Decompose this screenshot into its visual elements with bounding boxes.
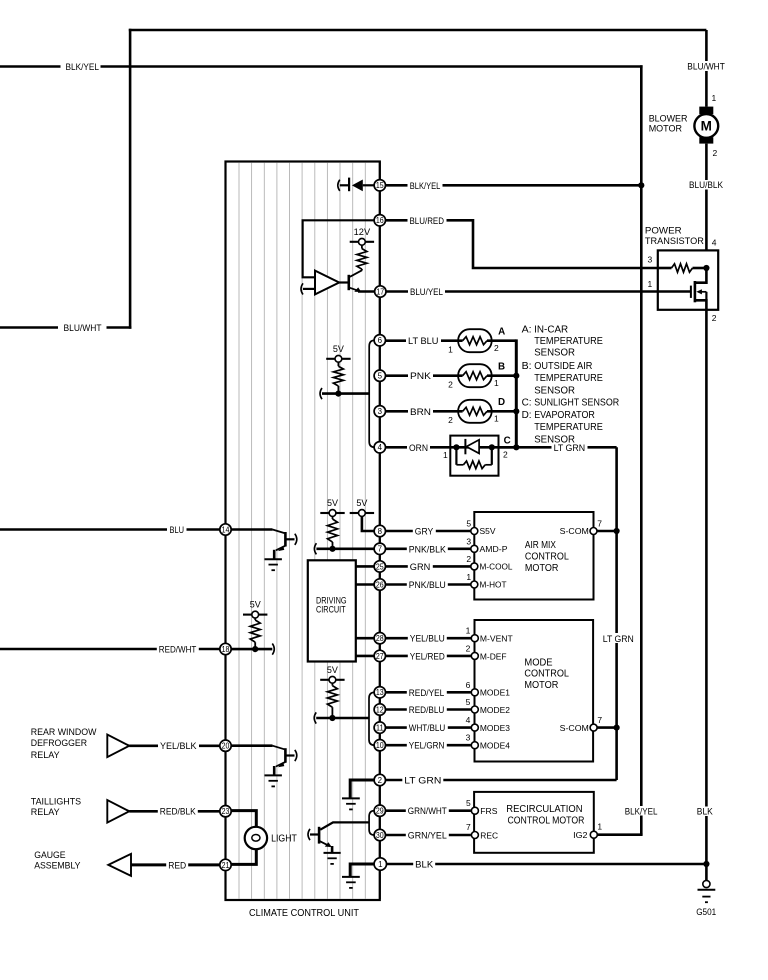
svg-text:C:: C: [522,397,532,408]
svg-text:2: 2 [466,554,471,564]
wire IG2 to BLK/YEL bus [597,833,642,836]
svg-text:CONTROL MOTOR: CONTROL MOTOR [508,816,585,827]
svg-text:LIGHT: LIGHT [271,834,297,845]
svg-text:M-COOL: M-COOL [480,562,513,572]
svg-text:1: 1 [378,860,383,869]
wire power transistor pin2 to ground BLK [705,310,708,881]
svg-text:5V: 5V [356,498,368,508]
power transistor U2 box [658,250,718,309]
svg-text:ORN: ORN [409,443,428,453]
junction sensor bus D [513,408,519,414]
svg-text:2: 2 [466,643,471,653]
svg-text:REC: REC [480,830,498,840]
terminal M-COOL (2) [471,563,478,570]
wire BLU/WHT from left edge to top rail [0,326,58,329]
svg-text:RELAY: RELAY [31,749,61,760]
op-amp U1 [315,271,339,295]
junction sensor bus B [513,373,519,379]
svg-text:AIR MIX: AIR MIX [525,540,556,551]
svg-text:BLK/YEL: BLK/YEL [66,62,100,72]
svg-text:CONTROL: CONTROL [524,669,569,680]
terminal MODE2 (5) [471,706,478,713]
svg-text:M-VENT: M-VENT [480,634,514,644]
thermistor A (in-car temperature sensor) [463,337,487,345]
transistor Q6 at pin 20 [231,744,272,747]
svg-text:17: 17 [376,287,384,296]
pin 15 wire BLK/YEL [385,184,641,187]
terminal M-HOT (1) [471,581,478,588]
svg-text:3: 3 [466,733,471,743]
pin 1 internal ground [350,864,374,877]
5V supply left of pin 7 [320,512,329,514]
junction S-COM air mix [614,528,620,534]
terminal MODE1 (6) [471,689,478,696]
photodiode in sunlight sensor [464,439,466,454]
svg-text:A:: A: [522,324,532,335]
5V supply for pin 8 [350,512,359,514]
label BLU/WHT at blower [685,61,726,71]
pin 30 [374,829,385,840]
svg-text:OUTSIDE AIR: OUTSIDE AIR [534,361,592,372]
mode control motor box [475,620,594,762]
5V supply for sensors [326,358,335,360]
svg-text:18: 18 [222,645,230,654]
svg-text:26: 26 [376,580,384,589]
sunlight sensor C box [450,436,498,476]
pin 6 wire LT BLU to in-car temp sensor [386,339,463,342]
svg-text:FRS: FRS [480,806,497,816]
wire blower to power transistor BLU/BLK [705,144,708,251]
svg-text:28: 28 [376,634,384,643]
svg-text:16: 16 [376,216,384,225]
svg-text:5: 5 [466,519,471,529]
terminal M-VENT (1) [471,635,478,642]
wire top rail to blower motor [129,29,707,32]
pin 7 wire PNK/BLK to AMD-P [386,547,471,550]
svg-text:11: 11 [376,724,384,733]
pin 25 wire GRN to M-COOL [356,565,471,568]
svg-text:BRN: BRN [410,407,431,417]
svg-text:TEMPERATURE: TEMPERATURE [534,336,603,347]
pin 26 [374,579,385,590]
wire pin16 to op-amp input [303,220,375,277]
pin 2 [374,774,385,785]
junction drain node [703,265,709,271]
svg-text:D:: D: [522,410,532,421]
svg-text:23: 23 [222,807,230,816]
svg-text:IG2: IG2 [573,830,588,840]
resistor R5 pin18 pull-up [254,618,256,620]
pin 7 [374,543,385,554]
svg-text:5V: 5V [333,344,345,354]
svg-text:YEL/GRN: YEL/GRN [409,741,445,751]
svg-text:4: 4 [378,443,383,452]
pin 14 [220,524,231,535]
svg-text:CONTROL: CONTROL [525,552,569,563]
5V supply for mode pins [320,679,329,681]
svg-text:TAILLIGHTS: TAILLIGHTS [31,795,81,806]
connector arrow from taillights relay [107,800,129,823]
pin 28 wire YEL/BLU to M-VENT [386,637,472,640]
svg-text:12: 12 [376,705,384,714]
svg-text:1: 1 [648,279,653,289]
svg-text:1: 1 [494,413,499,423]
pin 4 [374,442,385,453]
svg-text:5: 5 [378,372,383,381]
wire blower motor drop [705,30,708,107]
terminal FRS (5) [471,807,478,814]
pin 20 wire YEL/BLK [129,744,219,747]
svg-text:IN-CAR: IN-CAR [534,324,568,335]
pin 11 wire WHT/BLU to MODE3 [386,726,471,729]
svg-text:3: 3 [648,254,653,264]
svg-text:RECIRCULATION: RECIRCULATION [506,804,582,815]
svg-text:GRY: GRY [415,527,434,537]
svg-text:BLU/BLK: BLU/BLK [689,180,724,190]
svg-text:30: 30 [376,831,384,840]
terminal S5V (5) [471,528,478,535]
climate control unit box (hatched) [226,162,380,901]
label BLK right [695,807,715,817]
resistor R2 sensor pull-up [337,362,339,366]
junction C right [489,444,495,450]
svg-text:3: 3 [378,407,383,416]
svg-text:A: A [498,327,505,338]
thermistor B (outside air temperature sensor) [463,372,487,380]
svg-text:MOTOR: MOTOR [649,124,682,135]
svg-text:CLIMATE CONTROL UNIT: CLIMATE CONTROL UNIT [249,908,359,919]
svg-text:MOTOR: MOTOR [525,563,559,574]
pin 29 [374,805,385,816]
svg-text:YEL/RED: YEL/RED [410,651,445,661]
svg-text:25: 25 [376,562,384,571]
pin 16 wire BLU/RED to power transistor pin 3 [386,220,658,268]
pin 4 wire ORN to sunlight sensor [386,446,517,449]
svg-text:21: 21 [222,861,230,870]
panel light bulb [231,811,256,827]
junction BLK/YEL & pin15 wire [638,182,644,188]
svg-text:M-DEF: M-DEF [480,651,507,661]
pin 30 wire GRN/YEL to REC [386,834,471,837]
resistor R4 mode pull-up [331,683,333,685]
resistor inside power transistor [658,267,672,270]
svg-text:6: 6 [466,680,471,690]
junction LT GRN at sensor C [513,444,519,450]
svg-text:GRN/YEL: GRN/YEL [408,831,447,841]
pin 23 [220,806,231,817]
svg-text:2: 2 [503,449,508,459]
svg-text:S5V: S5V [480,526,496,536]
svg-text:EVAPORATOR: EVAPORATOR [534,410,595,421]
blower motor terminal 1 [699,107,713,115]
pin 2 internal ground [350,780,374,798]
svg-text:MODE4: MODE4 [480,741,510,751]
svg-text:GRN: GRN [410,562,431,572]
svg-text:WHT/BLU: WHT/BLU [409,723,446,733]
svg-text:SENSOR: SENSOR [534,435,575,446]
svg-text:RED/BLU: RED/BLU [409,705,445,715]
pin 12 [374,704,385,715]
svg-text:BLK: BLK [415,860,434,870]
pin 23 wire RED/BLK [129,810,219,813]
terminal AMD-P (3) [471,545,478,552]
pin 11 [374,722,385,733]
mosfet Q3 inside power transistor [695,268,707,283]
pin 6 [374,335,385,346]
pin 1 wire BLK to ground [386,863,707,866]
pin 16 [374,215,385,226]
driving circuit box [308,560,356,661]
svg-text:RED/WHT: RED/WHT [159,645,197,655]
resistor in sunlight sensor [455,447,457,465]
wire LT GRN from sunlight sensor [499,446,617,449]
pin 13 [374,687,385,698]
ground G501 [703,880,710,887]
wire vertical riser x=130 [129,29,132,329]
svg-text:1: 1 [448,345,453,355]
svg-text:7: 7 [466,822,471,832]
svg-text:2: 2 [713,148,718,158]
svg-text:LT GRN: LT GRN [603,634,634,645]
svg-text:BLK: BLK [697,807,714,817]
box right edge pin rail [379,162,381,900]
svg-text:RED/YEL: RED/YEL [409,688,445,698]
svg-text:MODE1: MODE1 [480,688,510,698]
svg-text:2: 2 [448,380,453,390]
svg-text:10: 10 [376,741,384,750]
svg-text:G501: G501 [696,907,716,917]
wire driving circuit to pin 27 [356,655,374,658]
svg-text:BLU: BLU [170,525,185,535]
svg-text:27: 27 [376,652,384,661]
bracket pins 13-12-11-10 [369,692,374,745]
pin 27 wire YEL/RED to M-DEF [386,655,472,658]
svg-text:TEMPERATURE: TEMPERATURE [534,422,603,433]
12V supply [350,241,359,243]
svg-text:TEMPERATURE: TEMPERATURE [534,373,603,384]
junction BLK wire [703,861,709,867]
pin 27 [374,650,385,661]
svg-text:5: 5 [466,798,471,808]
pin 5 wire PNK to outside air temp sensor [386,374,463,377]
svg-text:1: 1 [443,450,448,460]
svg-text:2: 2 [448,415,453,425]
svg-text:MODE: MODE [524,657,553,668]
pin 14 wire BLU from fan switch [0,528,220,531]
pin 5 [374,370,385,381]
pin 25 [374,561,385,572]
svg-text:SENSOR: SENSOR [534,348,575,359]
svg-text:BLU/RED: BLU/RED [410,216,445,226]
svg-text:2: 2 [712,313,717,323]
svg-text:M: M [701,119,712,134]
pin 7 wire with hook [314,543,316,554]
diode D1 at pin 15 [338,180,340,191]
svg-text:29: 29 [376,807,384,816]
svg-text:B:: B: [522,361,532,372]
svg-text:PNK: PNK [410,371,432,381]
svg-text:4: 4 [712,237,717,247]
svg-text:13: 13 [376,688,384,697]
svg-text:SUNLIGHT SENSOR: SUNLIGHT SENSOR [534,397,619,408]
transistor Q4 for light dimming [308,829,310,840]
pin 20 [220,740,231,751]
blower motor terminal 2 [699,137,713,143]
svg-text:MODE3: MODE3 [480,723,510,733]
pin 2 wire LT GRN to S-COM bus [386,779,617,782]
svg-text:YEL/BLU: YEL/BLU [410,634,445,644]
5V supply at pin 18 [243,614,252,616]
svg-text:TRANSISTOR: TRANSISTOR [645,236,704,247]
svg-text:MODE2: MODE2 [480,705,510,715]
pin 17 [375,286,386,297]
pin 8 wire GRY to S5V [386,530,471,533]
bracket pins 6-5-3-4 [369,340,374,447]
svg-text:7: 7 [597,715,602,725]
wire driving circuit to pin 28 [356,637,374,640]
svg-text:5V: 5V [327,498,339,508]
svg-text:RELAY: RELAY [31,806,61,817]
svg-text:2: 2 [494,343,499,353]
svg-text:5V: 5V [250,600,262,610]
svg-text:SENSOR: SENSOR [534,386,575,397]
terminal REC (7) [471,832,478,839]
svg-text:M-HOT: M-HOT [480,580,508,590]
svg-text:S-COM: S-COM [560,526,589,536]
pin 1 [374,858,386,870]
terminal MODE3 (4) [471,724,478,731]
transistor Q1 at op-amp output [339,281,348,283]
terminal MODE4 (3) [471,742,478,749]
svg-text:5V: 5V [327,665,339,675]
svg-text:D: D [498,397,505,408]
pin 28 [374,633,385,644]
svg-text:AMD-P: AMD-P [480,544,508,554]
wire S-COM mode to LT GRN bus [597,726,617,729]
wire 5V to mode bracket [314,712,316,723]
pin 29 wire GRN/WHT to FRS [386,809,471,812]
pin 26 wire PNK/BLU to M-HOT [356,583,471,586]
svg-text:C: C [504,435,511,446]
svg-text:1: 1 [597,822,602,832]
svg-text:20: 20 [222,742,230,751]
svg-text:7: 7 [597,519,602,529]
wire BLK/YEL vertical bus x=641 [640,65,643,835]
svg-text:RED: RED [168,860,186,870]
svg-text:4: 4 [466,715,471,725]
svg-text:3: 3 [466,536,471,546]
pin 21 wire RED [131,863,220,866]
wire S-COM to LT GRN bus [597,530,617,533]
svg-text:RED/BLK: RED/BLK [160,807,197,817]
svg-text:GRN/WHT: GRN/WHT [408,806,447,816]
pin 18 [220,643,231,654]
label POWER TRANSISTOR [643,225,705,245]
svg-text:YEL/BLK: YEL/BLK [160,741,197,751]
pin 17 wire BLU/YEL to mosfet gate [358,290,691,293]
recirculation control motor box [474,792,594,853]
svg-text:6: 6 [378,336,383,345]
svg-text:DEFROGGER: DEFROGGER [31,737,87,748]
svg-text:BLK/YEL: BLK/YEL [410,181,441,191]
svg-text:1: 1 [494,378,499,388]
blower motor M circle [694,114,718,138]
pin 15 [374,180,385,191]
label BLU/BLK [687,180,726,190]
connector arrow to gauge assembly [108,854,131,876]
pin 8 [374,525,385,536]
wire 5V to sensor bracket [320,388,322,399]
svg-text:LT GRN: LT GRN [404,776,441,786]
pin 21 [220,859,231,870]
label BLK/YEL at IG2 [623,806,660,816]
svg-text:15: 15 [376,181,384,190]
pin 18 wire RED/WHT [0,648,220,651]
resistor R3 pin7 pull-up [332,516,334,519]
op-amp lower input with hook [301,283,303,294]
svg-text:14: 14 [222,525,230,534]
resistor R1 12V pull-up [361,245,363,248]
wire 5V to pin 8 [362,516,374,531]
bracket pins 29-30 [369,811,374,835]
terminal M-DEF (2) [471,652,478,659]
sensor bus vertical wire [515,339,518,448]
junction pin7 pull-up [329,546,335,552]
svg-text:CIRCUIT: CIRCUIT [316,605,346,615]
svg-text:1: 1 [466,626,471,636]
pin 12 wire RED/BLU to MODE2 [386,708,471,711]
pin 18 internal wire with hook [231,648,272,651]
thermistor D (evaporator temperature sensor) [463,407,487,415]
svg-text:LT BLU: LT BLU [408,336,439,346]
svg-text:1: 1 [712,93,717,103]
svg-text:BLU/WHT: BLU/WHT [687,61,725,71]
pin 3 [374,406,385,417]
svg-text:BLU/YEL: BLU/YEL [410,287,443,297]
svg-text:REAR WINDOW: REAR WINDOW [31,726,97,737]
svg-text:PNK/BLU: PNK/BLU [409,580,446,590]
pin 3 wire BRN to evaporator temp sensor [386,410,463,413]
svg-text:2: 2 [378,776,383,785]
svg-text:7: 7 [378,545,383,554]
transistor Q5 at pin 14 [231,528,272,531]
svg-text:BLU/WHT: BLU/WHT [64,323,102,333]
wire BLK/YEL from left edge [0,65,61,68]
junction C left [453,444,459,450]
svg-text:8: 8 [378,527,383,536]
svg-text:PNK/BLK: PNK/BLK [409,544,447,554]
pin 10 [374,740,385,751]
pin 10 wire YEL/GRN to MODE4 [386,744,471,747]
svg-text:5: 5 [466,697,471,707]
junction S-COM mode [614,725,620,731]
air mix control motor box [474,512,593,600]
pin 13 wire RED/YEL to MODE1 [386,691,471,694]
svg-text:S-COM: S-COM [560,723,589,733]
svg-text:BLK/YEL: BLK/YEL [625,806,658,816]
svg-text:12V: 12V [354,227,371,237]
svg-text:1: 1 [466,572,471,582]
svg-text:MOTOR: MOTOR [524,680,558,691]
svg-text:ASSEMBLY: ASSEMBLY [34,859,81,870]
svg-text:B: B [498,361,505,372]
wire LT GRN vertical S-COM bus [615,447,618,780]
connector arrow from defrogger relay [107,735,129,758]
